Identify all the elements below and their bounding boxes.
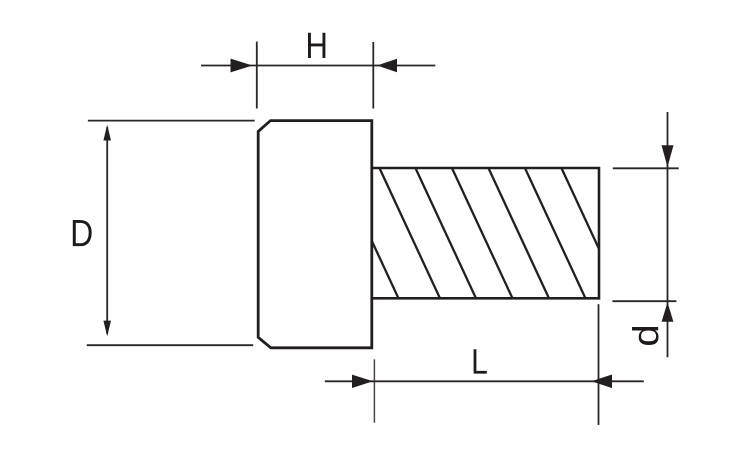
- dimension d arrow up: [662, 302, 674, 322]
- dimension D extension line top: [88, 120, 255, 122]
- dimension D arrow down: [103, 321, 111, 337]
- dimension L extension line left: [373, 359, 375, 422]
- dimension H arrow left: [231, 59, 253, 73]
- label H: [308, 33, 325, 58]
- dimension d arrow down: [662, 145, 674, 167]
- dimension H extension line right: [372, 42, 374, 109]
- dimension L line: [325, 380, 644, 382]
- dimension L extension line right: [598, 304, 600, 425]
- label D: [73, 220, 92, 246]
- dimension d extension line bottom: [612, 300, 676, 302]
- dimension D line: [106, 127, 108, 334]
- label d (rotated): [632, 327, 659, 345]
- thread hatch lines: [337, 166, 623, 300]
- dimension d line: [667, 112, 669, 357]
- dimension D extension line bottom: [87, 344, 253, 346]
- dimension D arrow up: [103, 125, 111, 141]
- screw head outline: [258, 121, 372, 348]
- dimension L arrow left: [352, 375, 373, 388]
- dimension H extension line left: [256, 42, 258, 109]
- dimension d extension line top: [613, 167, 679, 169]
- dimension H arrow right: [377, 59, 397, 72]
- label L: [474, 349, 487, 373]
- threaded shaft outline: [372, 168, 599, 298]
- dimension L arrow right: [592, 375, 613, 389]
- dimension H line: [201, 65, 435, 67]
